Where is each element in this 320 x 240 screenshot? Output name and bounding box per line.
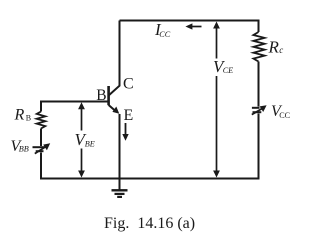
svg-text:R: R — [14, 107, 25, 124]
svg-text:BB: BB — [19, 145, 29, 154]
svg-text:BE: BE — [85, 140, 95, 149]
svg-text:R: R — [268, 38, 280, 57]
svg-text:Fig. 14.16 (a): Fig. 14.16 (a) — [104, 215, 195, 232]
svg-text:C: C — [123, 76, 134, 93]
svg-text:E: E — [124, 107, 134, 124]
svg-text:CC: CC — [159, 30, 170, 39]
svg-text:B: B — [26, 114, 31, 123]
svg-text:CC: CC — [279, 111, 290, 120]
svg-text:CE: CE — [223, 66, 233, 75]
svg-text:c: c — [279, 45, 283, 55]
svg-text:B: B — [96, 87, 106, 104]
